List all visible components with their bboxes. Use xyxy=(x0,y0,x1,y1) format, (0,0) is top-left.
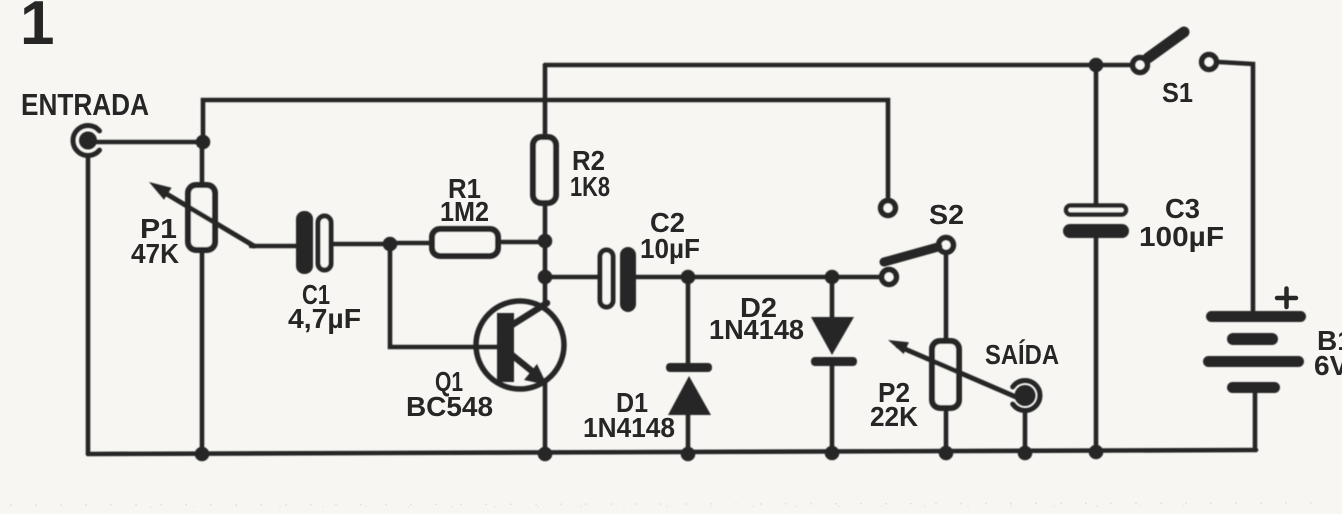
node F junction dot xyxy=(825,270,840,285)
wire node F down to D2 anode xyxy=(830,277,835,318)
junction ground / Q1 emitter xyxy=(538,447,553,462)
resistor R1 xyxy=(432,229,498,256)
svg-text:22K: 22K xyxy=(870,401,918,432)
capacitor C1 xyxy=(296,211,331,274)
svg-text:C3: C3 xyxy=(1165,193,1200,224)
svg-text:47K: 47K xyxy=(131,238,179,269)
node D junction dot xyxy=(538,270,553,285)
switch S2 xyxy=(881,201,954,285)
wire node E down to D1 cathode xyxy=(686,277,691,364)
junction ground / D1 xyxy=(681,447,696,462)
wire S2 middle contact down to P2 xyxy=(944,255,949,341)
wire input jack sleeve to ground rail xyxy=(86,157,91,454)
wire battery negative to ground xyxy=(1253,392,1258,450)
potentiometer P1 xyxy=(149,182,254,250)
wire node E to node F xyxy=(688,275,832,280)
wire input jack to node A xyxy=(96,140,203,145)
battery B1 xyxy=(1203,311,1306,393)
scan speckle row (decorative) xyxy=(10,503,1335,505)
node C junction dot xyxy=(538,234,553,249)
svg-text:1N4148: 1N4148 xyxy=(709,314,804,345)
node E junction dot xyxy=(681,270,696,285)
svg-text:10µF: 10µF xyxy=(640,233,700,264)
wire R1 to node C xyxy=(498,240,545,245)
wire C3 bottom to ground xyxy=(1094,237,1099,452)
junction ground / D2 xyxy=(825,446,840,461)
wire Q1 emitter to ground xyxy=(543,382,548,454)
output jack SAIDA xyxy=(1013,381,1040,411)
node B junction dot xyxy=(383,237,398,252)
svg-text:ENTRADA: ENTRADA xyxy=(21,87,149,122)
wire C2 to node E xyxy=(635,275,688,280)
junction ground / P1 xyxy=(195,447,210,462)
wire ground bottom rail xyxy=(88,450,1256,454)
wire node C to node D xyxy=(543,241,548,277)
wire R2 bottom to node C xyxy=(543,203,548,241)
capacitor C3 xyxy=(1063,206,1129,239)
wire SAIDA jack sleeve to ground xyxy=(1023,412,1028,453)
wire D2 cathode to ground xyxy=(830,365,835,453)
wire D1 anode to ground xyxy=(686,414,691,454)
wire R2 top to V+ rail xyxy=(543,65,548,137)
svg-text:SAÍDA: SAÍDA xyxy=(985,339,1059,370)
wire S1 to battery positive xyxy=(1219,62,1253,311)
svg-text:100µF: 100µF xyxy=(1139,221,1224,252)
junction V+ rail / C3 xyxy=(1089,58,1104,73)
svg-text:4,7µF: 4,7µF xyxy=(288,303,361,334)
svg-text:6V: 6V xyxy=(1314,350,1342,381)
diode D1 xyxy=(666,363,712,415)
resistor R2 xyxy=(533,137,556,203)
wire V+ top rail 1 xyxy=(545,63,1131,68)
input jack ENTRADA xyxy=(73,126,100,156)
wire node A up, top rail 2, down to S2 top contact xyxy=(203,100,888,197)
wire node D to C2 xyxy=(545,275,599,280)
wire node F to S2 common xyxy=(832,275,879,280)
svg-text:1N4148: 1N4148 xyxy=(583,412,675,443)
svg-text:BC548: BC548 xyxy=(406,391,493,422)
wire node B to R1 xyxy=(390,241,432,246)
wire V+ rail junction down to C3 xyxy=(1094,65,1099,204)
switch S1 xyxy=(1133,32,1217,72)
potentiometer P2 xyxy=(888,340,1016,408)
svg-text:1M2: 1M2 xyxy=(440,196,489,227)
wire P2 bottom to ground xyxy=(944,408,949,453)
junction ground / SAIDA xyxy=(1018,446,1033,461)
svg-text:S2: S2 xyxy=(929,199,964,230)
wire node D to Q1 collector xyxy=(543,277,548,304)
wire P1 bottom to ground xyxy=(200,250,205,454)
label battery plus xyxy=(1277,289,1296,308)
wire node A down to P1 xyxy=(200,142,205,185)
junction ground / P2 xyxy=(939,446,954,461)
svg-text:S1: S1 xyxy=(1162,77,1193,108)
capacitor C2 xyxy=(600,247,636,312)
junction ground / C3 xyxy=(1089,445,1104,460)
svg-text:1K8: 1K8 xyxy=(570,171,610,202)
svg-text:1: 1 xyxy=(20,0,54,58)
diode D2 xyxy=(811,317,857,366)
wire C1 to node B xyxy=(332,242,390,247)
node A junction dot xyxy=(196,135,211,150)
wire node B down to Q1 base xyxy=(390,244,497,347)
wire P1 wiper to C1 xyxy=(251,244,297,249)
transistor Q1 xyxy=(476,301,564,389)
